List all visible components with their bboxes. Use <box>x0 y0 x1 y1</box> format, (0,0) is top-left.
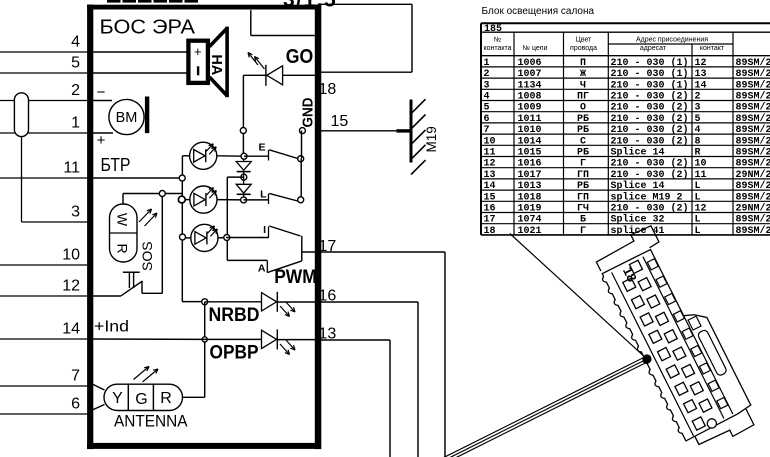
svg-text:1019: 1019 <box>518 204 542 215</box>
svg-text:Ч: Ч <box>580 80 586 91</box>
svg-text:210 - 030 (2): 210 - 030 (2) <box>611 135 689 147</box>
svg-text:E: E <box>258 142 265 154</box>
svg-text:7: 7 <box>484 125 490 136</box>
svg-text:ANTENNA: ANTENNA <box>114 412 188 431</box>
svg-text:+Ind: +Ind <box>94 319 129 336</box>
svg-text:12: 12 <box>62 278 80 295</box>
svg-text:11: 11 <box>63 160 80 177</box>
svg-text:SOS: SOS <box>139 241 155 271</box>
svg-text:210 - 030 (2): 210 - 030 (2) <box>611 203 689 215</box>
svg-text:10: 10 <box>62 247 80 264</box>
svg-text:89SM/2: 89SM/2 <box>736 214 770 226</box>
svg-text:L: L <box>695 181 701 192</box>
svg-text:L: L <box>695 192 701 203</box>
svg-text:splice M19 2: splice M19 2 <box>611 191 683 203</box>
svg-text:М19: М19 <box>424 126 439 152</box>
svg-text:РБ: РБ <box>577 114 589 125</box>
svg-text:G: G <box>135 391 147 408</box>
svg-text:2: 2 <box>695 92 701 103</box>
svg-text:89SM/2: 89SM/2 <box>736 225 770 237</box>
svg-text:Ж: Ж <box>580 69 586 80</box>
svg-text:3/1.5: 3/1.5 <box>283 0 337 11</box>
svg-text:15: 15 <box>331 113 349 130</box>
svg-text:1008: 1008 <box>518 92 542 103</box>
svg-text:1: 1 <box>71 115 80 132</box>
svg-text:1134: 1134 <box>518 80 542 91</box>
svg-text:Г: Г <box>580 159 586 170</box>
svg-text:БТР: БТР <box>101 155 131 175</box>
svg-text:89SM/2: 89SM/2 <box>736 135 770 147</box>
svg-text:PWM: PWM <box>274 267 317 288</box>
svg-text:1021: 1021 <box>518 226 542 237</box>
svg-text:14: 14 <box>484 181 496 192</box>
svg-text:splice 41: splice 41 <box>611 225 665 237</box>
svg-text:1011: 1011 <box>518 114 542 125</box>
svg-text:ГЧ: ГЧ <box>577 204 589 215</box>
svg-text:Б: Б <box>580 215 586 226</box>
svg-text:С: С <box>580 136 586 147</box>
svg-text:11: 11 <box>695 170 707 181</box>
svg-text:Splice 14: Splice 14 <box>611 180 665 192</box>
svg-text:L: L <box>695 215 701 226</box>
svg-text:Адрес присоединения: Адрес присоединения <box>636 37 708 44</box>
svg-text:4: 4 <box>695 125 701 136</box>
svg-text:2: 2 <box>484 69 490 80</box>
svg-text:210 - 030 (2): 210 - 030 (2) <box>611 124 689 136</box>
svg-text:8: 8 <box>695 136 701 147</box>
svg-text:16: 16 <box>484 204 496 215</box>
svg-text:РБ: РБ <box>577 125 589 136</box>
svg-text:ГП: ГП <box>577 170 589 181</box>
svg-text:11: 11 <box>484 148 496 159</box>
svg-text:89SM/2: 89SM/2 <box>736 57 770 69</box>
svg-text:R: R <box>160 390 172 407</box>
svg-text:NRBD: NRBD <box>209 305 260 326</box>
svg-text:13: 13 <box>484 170 496 181</box>
svg-text:210 - 030 (1): 210 - 030 (1) <box>611 68 689 80</box>
svg-text:Splice 14: Splice 14 <box>611 147 665 159</box>
svg-text:4: 4 <box>484 92 490 103</box>
svg-text:R: R <box>695 148 701 159</box>
svg-text:89SM/2: 89SM/2 <box>736 180 770 192</box>
svg-text:89SM/2: 89SM/2 <box>736 102 770 114</box>
svg-text:1018: 1018 <box>518 192 542 203</box>
svg-text:Y: Y <box>112 390 123 407</box>
svg-text:14: 14 <box>695 80 707 91</box>
svg-text:210 - 030 (2): 210 - 030 (2) <box>611 158 689 170</box>
svg-text:12: 12 <box>695 204 707 215</box>
svg-text:+: + <box>194 44 202 59</box>
svg-text:14: 14 <box>62 321 80 338</box>
svg-text:1013: 1013 <box>518 181 542 192</box>
svg-text:W: W <box>115 213 131 227</box>
svg-text:3: 3 <box>695 103 701 114</box>
svg-text:1074: 1074 <box>518 215 542 226</box>
svg-text:15: 15 <box>484 192 496 203</box>
svg-text:210 - 030 (2): 210 - 030 (2) <box>611 102 689 114</box>
svg-text:89SM/2: 89SM/2 <box>736 147 770 159</box>
svg-text:Splice 32: Splice 32 <box>611 214 665 226</box>
svg-text:17: 17 <box>484 215 496 226</box>
svg-text:ВМ: ВМ <box>116 110 138 126</box>
svg-text:12: 12 <box>695 58 707 69</box>
svg-text:−: − <box>97 84 106 101</box>
svg-text:R: R <box>115 243 131 253</box>
svg-text:210 - 030 (2): 210 - 030 (2) <box>611 91 689 103</box>
svg-text:БОС ЭРА: БОС ЭРА <box>100 17 196 39</box>
svg-text:1009: 1009 <box>518 103 542 114</box>
svg-text:РБ: РБ <box>577 181 589 192</box>
svg-text:I: I <box>263 224 266 236</box>
svg-text:контакт: контакт <box>700 45 725 52</box>
svg-text:3: 3 <box>71 204 80 221</box>
svg-text:ПГ: ПГ <box>577 92 589 103</box>
svg-text:89SM/2: 89SM/2 <box>736 191 770 203</box>
svg-text:29NM/2: 29NM/2 <box>736 203 770 215</box>
svg-text:L: L <box>260 189 267 201</box>
svg-text:1: 1 <box>484 58 490 69</box>
svg-text:провода: провода <box>570 45 597 52</box>
svg-text:5: 5 <box>695 114 701 125</box>
svg-text:210 - 030 (1): 210 - 030 (1) <box>611 57 689 69</box>
svg-text:О: О <box>580 103 586 114</box>
svg-text:12: 12 <box>484 159 496 170</box>
svg-text:89SM/2: 89SM/2 <box>736 91 770 103</box>
svg-text:GO: GO <box>286 46 314 68</box>
svg-text:5: 5 <box>484 103 490 114</box>
svg-text:89SM/2: 89SM/2 <box>736 113 770 125</box>
svg-text:89SM/2: 89SM/2 <box>736 68 770 80</box>
svg-text:10: 10 <box>484 136 496 147</box>
svg-text:L: L <box>695 226 701 237</box>
svg-text:89SM/2: 89SM/2 <box>736 158 770 170</box>
svg-text:+: + <box>97 132 106 149</box>
svg-text:5: 5 <box>71 55 80 72</box>
svg-text:GND: GND <box>299 97 316 127</box>
svg-text:НА: НА <box>208 54 224 75</box>
svg-text:OPBP: OPBP <box>210 343 259 364</box>
svg-text:7: 7 <box>71 368 80 385</box>
svg-text:ГП: ГП <box>577 192 589 203</box>
svg-text:РБ: РБ <box>577 148 589 159</box>
svg-text:210 - 030 (1): 210 - 030 (1) <box>611 79 689 91</box>
svg-text:89SM/2: 89SM/2 <box>736 79 770 91</box>
svg-text:18: 18 <box>484 226 496 237</box>
svg-text:3: 3 <box>484 80 490 91</box>
svg-text:П: П <box>580 58 586 69</box>
svg-text:Цвет: Цвет <box>576 37 592 44</box>
svg-text:2: 2 <box>71 82 80 99</box>
svg-text:4: 4 <box>71 34 80 51</box>
svg-text:Блок освещения салона: Блок освещения салона <box>482 6 595 17</box>
svg-text:210 - 030 (2): 210 - 030 (2) <box>611 113 689 125</box>
svg-text:1007: 1007 <box>518 69 542 80</box>
svg-text:1015: 1015 <box>518 148 542 159</box>
svg-text:185: 185 <box>484 24 502 35</box>
svg-text:контакта: контакта <box>483 45 511 52</box>
svg-text:1010: 1010 <box>518 125 542 136</box>
svg-text:A: A <box>258 263 266 275</box>
svg-text:1017: 1017 <box>518 170 542 181</box>
svg-text:29NM/2: 29NM/2 <box>736 169 770 181</box>
svg-text:18: 18 <box>319 81 337 98</box>
svg-text:1014: 1014 <box>518 136 542 147</box>
svg-text:210 - 030 (2): 210 - 030 (2) <box>611 169 689 181</box>
svg-text:Г: Г <box>580 226 586 237</box>
svg-text:№: № <box>494 37 502 44</box>
svg-text:10: 10 <box>695 159 707 170</box>
svg-text:1006: 1006 <box>518 58 542 69</box>
svg-text:№ цепи: № цепи <box>523 45 548 52</box>
svg-text:адресат: адресат <box>640 45 667 52</box>
svg-text:13: 13 <box>695 69 707 80</box>
svg-text:6: 6 <box>484 114 490 125</box>
svg-text:6: 6 <box>71 396 80 413</box>
svg-text:1016: 1016 <box>518 159 542 170</box>
svg-text:89SM/2: 89SM/2 <box>736 124 770 136</box>
